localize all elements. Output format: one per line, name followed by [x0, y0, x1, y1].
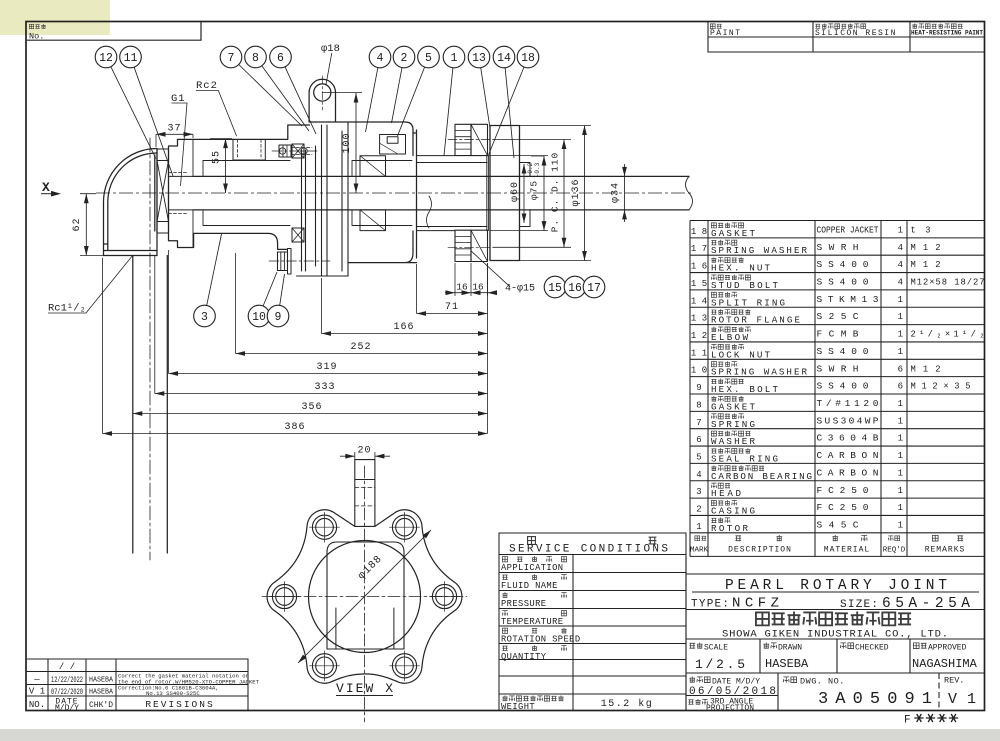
- svg-text:2: 2: [401, 52, 408, 65]
- balloon 10: [263, 272, 277, 306]
- svg-text:1: 1: [898, 312, 903, 322]
- svg-text:4: 4: [696, 470, 701, 480]
- svg-text:SEAL RING: SEAL RING: [711, 453, 778, 464]
- balloon 16: [564, 276, 586, 298]
- dim 62: [85, 194, 87, 256]
- svg-text:4: 4: [377, 52, 384, 65]
- svg-text:1/2.5: 1/2.5: [695, 657, 745, 672]
- head item3 outline: [169, 125, 310, 249]
- svg-text:8: 8: [252, 52, 259, 65]
- svg-text:HASEBA: HASEBA: [89, 689, 114, 697]
- svg-text:APPLICATION: APPLICATION: [501, 563, 563, 573]
- svg-text:16: 16: [472, 282, 484, 293]
- svg-text:1 4: 1 4: [691, 296, 707, 306]
- svg-text:1: 1: [898, 295, 903, 305]
- svg-text:356: 356: [301, 402, 322, 413]
- shoulder step right of flange: [520, 163, 531, 227]
- svg-text:M/D/Y: M/D/Y: [55, 704, 79, 713]
- svg-text:NAGASHIMA: NAGASHIMA: [912, 657, 978, 671]
- balloon 5: [398, 67, 425, 136]
- svg-text:166: 166: [393, 322, 414, 333]
- dim 252: [236, 353, 488, 355]
- dim 20: [340, 452, 390, 460]
- svg-text:CHECKED: CHECKED: [855, 644, 889, 653]
- svg-text:4: 4: [898, 260, 903, 270]
- svg-text:4-φ15: 4-φ15: [505, 284, 535, 295]
- svg-text:REV.: REV.: [944, 676, 964, 686]
- svg-text:SHOWA GIKEN INDUSTRIAL CO., LT: SHOWA GIKEN INDUSTRIAL CO., LTD.: [722, 629, 948, 641]
- svg-text:1 6: 1 6: [691, 262, 707, 272]
- svg-text:1: 1: [898, 486, 903, 496]
- balloon 6: [285, 67, 316, 134]
- balloon 17: [583, 276, 605, 298]
- balloon 11: [134, 67, 173, 176]
- svg-text:10: 10: [252, 311, 266, 324]
- svg-text:X: X: [42, 180, 50, 195]
- lug hole phi18: [314, 84, 331, 101]
- partial section squiggle: [427, 196, 432, 228]
- svg-text:φ75: φ75: [529, 180, 540, 200]
- svg-text:1 0: 1 0: [691, 366, 707, 376]
- svg-text:333: 333: [314, 382, 335, 393]
- svg-text:6: 6: [898, 364, 903, 374]
- svg-text:HEX. BOLT: HEX. BOLT: [711, 384, 778, 395]
- svg-text:1: 1: [898, 226, 903, 236]
- seal gland item5/6: [380, 135, 406, 155]
- svg-text:NO.: NO.: [29, 700, 45, 710]
- Rc2 port cavity: [233, 139, 265, 160]
- dim PCD110: [563, 140, 565, 248]
- svg-text:φ18: φ18: [321, 43, 340, 55]
- svg-text:-0.3: -0.3: [534, 162, 541, 177]
- svg-text:7: 7: [228, 52, 235, 65]
- svg-text:WEIGHT: WEIGHT: [501, 702, 535, 712]
- svg-text:LOCK NUT: LOCK NUT: [711, 349, 770, 360]
- balloon 18: [489, 67, 525, 155]
- balloon 13: [481, 68, 490, 128]
- svg-text:6: 6: [696, 435, 701, 445]
- viewx flange scalloped outline: [267, 510, 462, 683]
- svg-text:No.13 SS400-S25C: No.13 SS400-S25C: [146, 690, 200, 697]
- svg-text:SILICON RESIN: SILICON RESIN: [815, 29, 897, 38]
- svg-text:7: 7: [696, 418, 701, 428]
- G1 nipple thread lines: [169, 176, 194, 210]
- rotor item1 shaft lines: [193, 176, 689, 210]
- svg-text:FLUID NAME: FLUID NAME: [501, 581, 558, 591]
- svg-text:/ /: / /: [59, 662, 75, 672]
- balloon 1: [444, 68, 453, 156]
- svg-text:φ60: φ60: [510, 181, 521, 202]
- elbow bottom face: [104, 244, 158, 256]
- svg-text:4: 4: [898, 243, 903, 253]
- svg-text:HEAT-RESISTING PAINT: HEAT-RESISTING PAINT: [911, 30, 983, 38]
- svg-text:55: 55: [212, 150, 223, 164]
- svg-text:1: 1: [898, 521, 903, 531]
- svg-text:14: 14: [497, 52, 511, 65]
- title block: [686, 556, 985, 710]
- svg-text:COPPER JACKET: COPPER JACKET: [817, 225, 879, 236]
- svg-text:2¹/₂×1¹/₂: 2¹/₂×1¹/₂: [911, 330, 985, 340]
- svg-text:M12: M12: [911, 364, 941, 374]
- stud bolts item15/16/17 top: [455, 124, 471, 155]
- dim 71: [417, 313, 488, 315]
- svg-text:TYPE:: TYPE:: [691, 599, 729, 611]
- main centerline: [96, 192, 692, 194]
- svg-text:1: 1: [898, 347, 903, 357]
- svg-text:HASEBA: HASEBA: [89, 677, 114, 685]
- svg-text:4: 4: [898, 278, 903, 288]
- svg-text:—: —: [33, 675, 40, 685]
- svg-text:CARBON BEARING: CARBON BEARING: [711, 471, 812, 482]
- svg-text:SCALE: SCALE: [704, 644, 728, 653]
- elbow item12 outer arc: [104, 149, 158, 256]
- svg-text:1: 1: [898, 399, 903, 409]
- svg-text:M12: M12: [911, 260, 941, 270]
- svg-text:REMARKS: REMARKS: [925, 546, 966, 555]
- casing right face: [348, 130, 417, 263]
- viewx top tab: [355, 460, 375, 527]
- dim phi188: [298, 530, 431, 663]
- svg-text:HASEBA: HASEBA: [765, 657, 809, 671]
- weight row: [502, 696, 507, 701]
- svg-text:SERVICE CONDITIONS: SERVICE CONDITIONS: [509, 544, 668, 556]
- viewx bolt holes: [432, 584, 456, 608]
- bottom grey strip: [0, 729, 1000, 741]
- svg-text:CHK'D: CHK'D: [89, 701, 113, 710]
- yellow sticky note top-left: [0, 0, 110, 35]
- viewx centerlines: [364, 466, 366, 722]
- svg-text:16: 16: [568, 282, 582, 295]
- svg-text:1 3: 1 3: [691, 314, 707, 324]
- parts list table: [690, 221, 985, 557]
- rotor flange item13: [490, 126, 520, 261]
- svg-text:APPROVED: APPROVED: [928, 644, 967, 653]
- svg-text:MATERIAL: MATERIAL: [824, 546, 870, 555]
- svg-text:1: 1: [898, 416, 903, 426]
- svg-text:QUANTITY: QUANTITY: [501, 652, 547, 662]
- svg-text:1: 1: [898, 330, 903, 340]
- svg-text:REQ'D: REQ'D: [883, 547, 906, 555]
- svg-text:φ136: φ136: [571, 178, 582, 206]
- gasket item18: [487, 156, 489, 231]
- svg-text:1: 1: [898, 468, 903, 478]
- svg-text:11: 11: [124, 52, 138, 65]
- svg-text:5: 5: [696, 452, 701, 462]
- svg-text:SPRING WASHER: SPRING WASHER: [711, 367, 807, 378]
- svg-text:1 7: 1 7: [691, 244, 707, 254]
- svg-text:TEMPERATURE: TEMPERATURE: [501, 617, 563, 627]
- svg-text:8: 8: [696, 400, 701, 410]
- svg-text:PRESSURE: PRESSURE: [501, 599, 546, 609]
- svg-text:62: 62: [72, 217, 83, 231]
- union nut X-box item11/14: [157, 161, 169, 222]
- dim phi136: [584, 126, 586, 261]
- svg-text:17: 17: [587, 282, 601, 295]
- svg-text:6: 6: [277, 52, 284, 65]
- paint table top right: [708, 22, 985, 52]
- svg-text:M12×58 18/27: M12×58 18/27: [911, 278, 985, 288]
- dim 356: [133, 413, 488, 415]
- svg-text:20: 20: [357, 446, 371, 457]
- supply pipe below elbow: [133, 256, 168, 554]
- dim 386: [103, 433, 488, 435]
- svg-text:12/22/2022: 12/22/2022: [51, 675, 83, 685]
- svg-text:3: 3: [696, 487, 701, 497]
- company name kanji: [756, 612, 769, 625]
- svg-text:12: 12: [99, 52, 113, 65]
- svg-text:1: 1: [898, 451, 903, 461]
- svg-text:6: 6: [898, 382, 903, 392]
- svg-text:18: 18: [521, 52, 535, 65]
- svg-text:07/22/2020: 07/22/2020: [51, 687, 83, 697]
- junction flange plates: [297, 122, 349, 276]
- svg-text:1: 1: [451, 52, 458, 65]
- dim 333: [155, 393, 488, 395]
- svg-text:STUD BOLT: STUD BOLT: [711, 280, 778, 291]
- svg-text:9: 9: [275, 311, 282, 324]
- head inner bore lines: [192, 139, 194, 247]
- dim 37: [156, 133, 193, 135]
- dim 319: [169, 373, 488, 375]
- svg-text:15: 15: [548, 282, 562, 295]
- extension lines: [80, 93, 630, 434]
- svg-text:φ34: φ34: [611, 182, 622, 203]
- svg-text:9: 9: [696, 383, 701, 393]
- svg-text:15.2 kg: 15.2 kg: [601, 698, 654, 710]
- hex nut item9/10 bottom: [278, 252, 288, 271]
- dim 166: [322, 333, 488, 335]
- carbon bearing item4: [360, 156, 386, 177]
- svg-text:ROTATION SPEED: ROTATION SPEED: [501, 635, 581, 645]
- spring item7: [292, 144, 304, 158]
- dim 16/16: [445, 292, 497, 294]
- svg-text:P. C. D. 110: P. C. D. 110: [550, 152, 561, 232]
- svg-text:13: 13: [472, 52, 486, 65]
- dim phi60: [523, 164, 525, 223]
- svg-text:37: 37: [167, 124, 181, 135]
- svg-text:F: F: [904, 715, 911, 727]
- svg-text:No.: No.: [29, 32, 44, 42]
- svg-text:2: 2: [696, 505, 701, 515]
- svg-text:SPRING WASHER: SPRING WASHER: [711, 245, 807, 256]
- svg-text:PAINT: PAINT: [710, 29, 742, 38]
- svg-text:V 1: V 1: [29, 687, 45, 697]
- svg-text:MARK: MARK: [690, 547, 709, 555]
- elbow vertical centerline: [149, 138, 151, 560]
- balloon 7: [239, 65, 302, 127]
- svg-text:252: 252: [350, 342, 371, 353]
- svg-text:DESCRIPTION: DESCRIPTION: [728, 546, 792, 555]
- balloon 4: [366, 68, 378, 132]
- svg-text:3: 3: [201, 311, 208, 324]
- svg-text:1 5: 1 5: [691, 279, 707, 289]
- shaft break squiggle: [686, 176, 693, 210]
- balloon 8: [262, 66, 309, 131]
- viewx centre bore circle: [309, 541, 421, 653]
- svg-text:1 1: 1 1: [691, 348, 707, 358]
- svg-text:DRAWN: DRAWN: [778, 644, 802, 653]
- balloon 15: [544, 276, 566, 298]
- svg-text:5: 5: [425, 52, 432, 65]
- dim phi75: [543, 156, 545, 231]
- svg-text:1 8: 1 8: [691, 227, 707, 237]
- stud bolts bottom: [455, 230, 471, 261]
- svg-text:1: 1: [898, 503, 903, 513]
- elbow right face: [155, 149, 157, 256]
- svg-text:1: 1: [696, 522, 701, 532]
- viewx casing square: [327, 542, 404, 649]
- hex bolt item9 top hidden: [279, 145, 291, 157]
- svg-text:16: 16: [456, 282, 468, 293]
- svg-text:DWG. NO.: DWG. NO.: [800, 677, 845, 687]
- service conditions table: [499, 533, 686, 711]
- code No. box top-left: [26, 22, 201, 41]
- balloon 14: [505, 68, 514, 158]
- dim phi34: [624, 164, 626, 222]
- dim 100: [355, 93, 357, 193]
- svg-text:-0.2: -0.2: [527, 162, 534, 177]
- svg-text:REVISIONS: REVISIONS: [145, 699, 214, 710]
- casing item2 top and lug: [309, 79, 413, 133]
- balloon 3: [207, 234, 222, 306]
- svg-text:71: 71: [445, 302, 459, 313]
- dim 55: [225, 139, 227, 193]
- revisions table: [26, 659, 248, 711]
- svg-text:319: 319: [316, 362, 337, 373]
- balloon 2: [392, 68, 403, 123]
- parts table header row: [695, 536, 700, 541]
- svg-text:HEX. NUT: HEX. NUT: [711, 263, 770, 274]
- balloon 9: [280, 274, 285, 305]
- svg-text:SIZE:: SIZE:: [840, 599, 878, 611]
- svg-text:1 2: 1 2: [691, 331, 707, 341]
- svg-text:386: 386: [284, 422, 305, 433]
- balloon 12: [111, 67, 156, 159]
- svg-text:1: 1: [898, 434, 903, 444]
- svg-text:PROJECTION: PROJECTION: [706, 704, 754, 713]
- svg-text:M12: M12: [911, 243, 941, 253]
- svg-text:100: 100: [342, 132, 353, 153]
- casing bore interior: [352, 161, 412, 226]
